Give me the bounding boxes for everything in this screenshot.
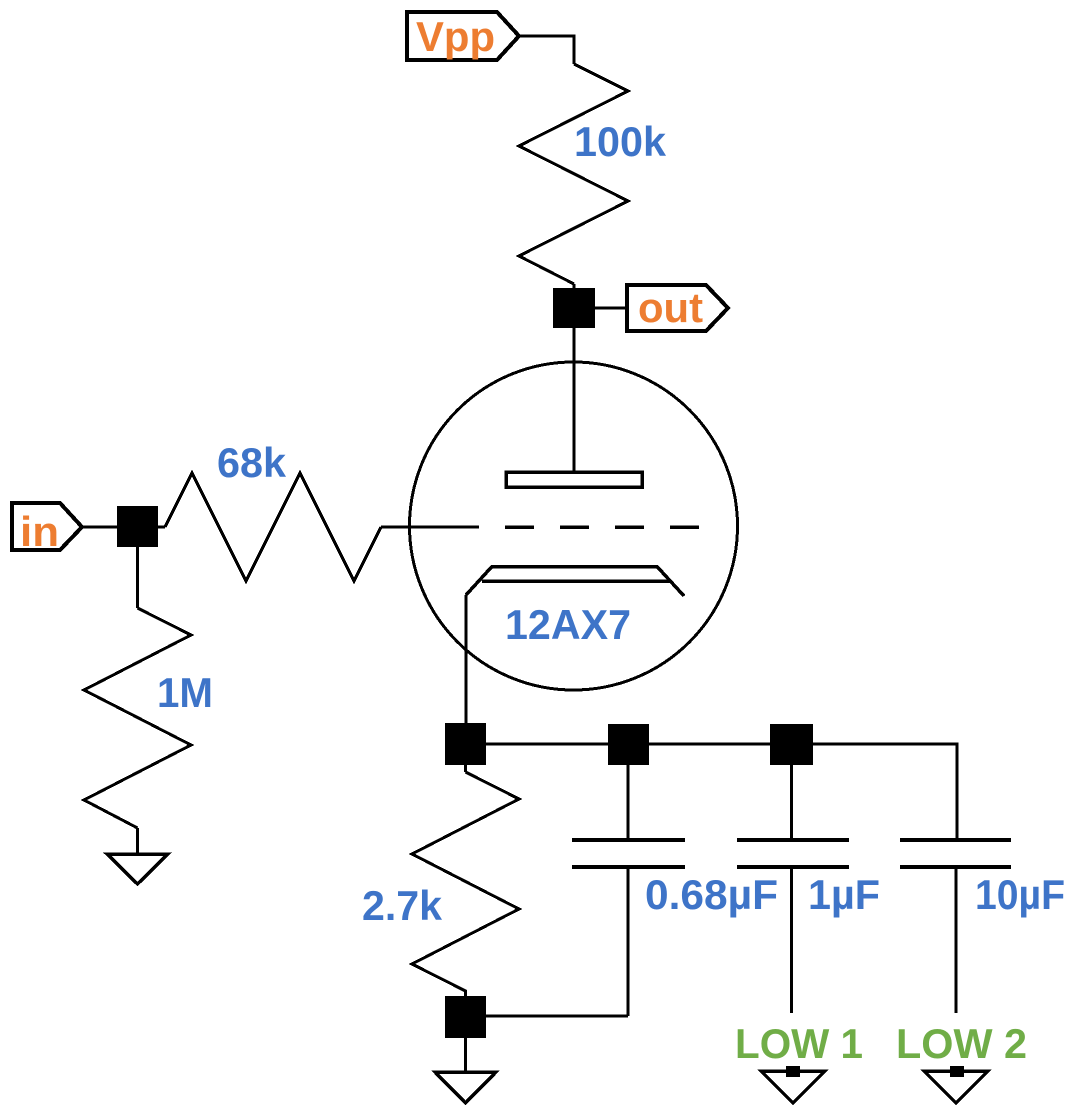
port flag in: [12, 503, 82, 555]
wire R1 to out node: [573, 284, 576, 290]
wire cap node 2 to C3: [813, 744, 957, 840]
port flag out: [627, 284, 728, 331]
tube U1 cathode: [466, 567, 684, 597]
svg-text:10µF: 10µF: [975, 871, 1065, 918]
tube U1 grid dashed: [505, 525, 699, 529]
capacitor C2 1uF: [790, 765, 793, 840]
net symbol LOW 2 triangle: [924, 1071, 988, 1103]
resistor R1 100k: [519, 64, 628, 284]
node bottom: [445, 996, 486, 1038]
svg-text:1µF: 1µF: [808, 871, 880, 918]
node cap2: [770, 724, 813, 765]
svg-text:100k: 100k: [574, 118, 667, 165]
tube U1 plate: [506, 472, 642, 487]
node in: [117, 506, 158, 547]
wire node to plate: [573, 328, 576, 472]
wire cathode node to cap node 1: [486, 743, 608, 746]
wire bottom node to ground: [464, 1038, 467, 1072]
svg-text:Vpp: Vpp: [416, 13, 495, 60]
resistor R4 2.7k: [412, 772, 519, 996]
wire R3 to ground: [136, 828, 139, 854]
svg-text:out: out: [638, 284, 703, 331]
resistor R3 1M: [84, 608, 191, 828]
node out: [553, 288, 595, 328]
svg-text:LOW 1: LOW 1: [735, 1020, 863, 1067]
svg-text:2.7k: 2.7k: [362, 882, 443, 929]
wire cap node 1 to cap node 2: [649, 743, 770, 746]
node cathode: [445, 723, 486, 765]
wire bottom node to C1: [486, 1015, 628, 1018]
wire R2 to grid: [381, 526, 479, 529]
wire node to out flag: [595, 307, 627, 310]
svg-text:12AX7: 12AX7: [505, 601, 631, 648]
capacitor C3 10uF: [900, 840, 1011, 867]
resistor R2 68k: [165, 473, 381, 581]
wire cathode down: [465, 595, 468, 723]
wire node to R2: [158, 526, 165, 529]
svg-text:68k: 68k: [217, 439, 287, 486]
svg-text:1M: 1M: [157, 669, 213, 716]
wire cathode node to R4: [464, 765, 467, 772]
net symbol LOW 1 triangle: [761, 1071, 825, 1103]
svg-text:0.68µF: 0.68µF: [645, 871, 778, 918]
wire node in down: [136, 547, 139, 608]
wire Vpp to R1: [519, 36, 574, 64]
capacitor C1 0.68uF: [627, 765, 630, 840]
tube U1 envelope: [410, 362, 738, 690]
ground G2: [435, 1072, 496, 1103]
port flag Vpp: [407, 12, 519, 60]
wire in flag to node: [82, 526, 117, 529]
svg-text:LOW 2: LOW 2: [896, 1020, 1027, 1067]
svg-text:in: in: [20, 508, 59, 555]
node cap1: [608, 724, 649, 765]
ground G1: [107, 854, 168, 884]
